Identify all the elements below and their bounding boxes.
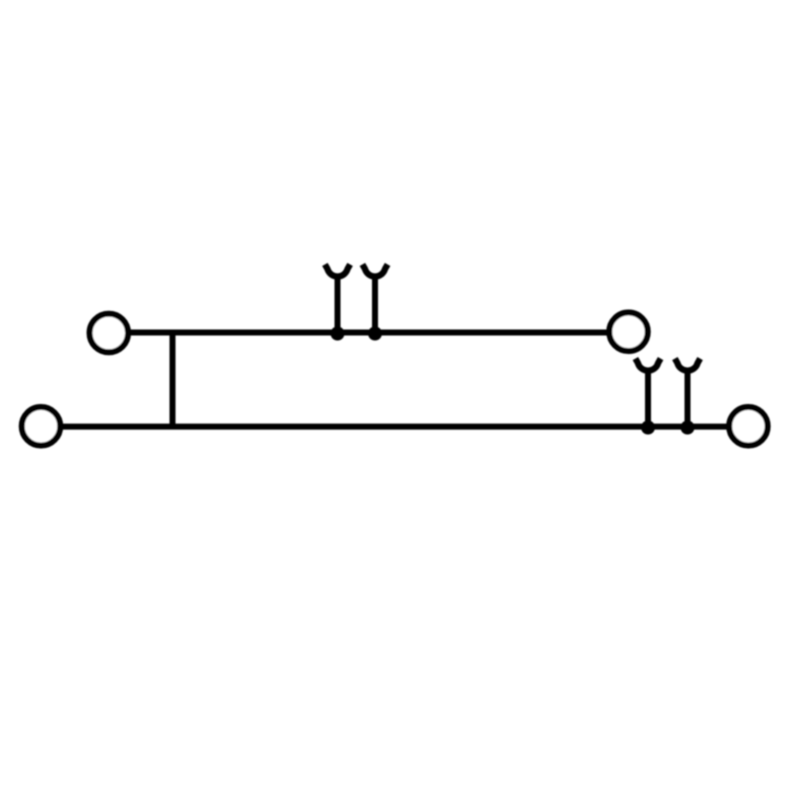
terminal circle upper-right — [609, 313, 648, 352]
test socket TS2 stem — [372, 276, 378, 333]
junction dot TS1 — [331, 327, 345, 341]
terminal circle lower-left — [22, 407, 61, 446]
test socket TS2 cup — [362, 264, 387, 276]
test socket TS4 cup — [675, 359, 700, 371]
wire lower rail — [41, 424, 748, 430]
test socket TS1 stem — [335, 276, 341, 333]
junction dot TS3 — [641, 421, 655, 435]
terminal circle upper-left — [90, 314, 129, 353]
test socket TS4 stem — [685, 370, 691, 426]
wire upper rail — [109, 330, 629, 336]
terminal circle lower-right — [729, 407, 768, 446]
junction dot TS4 — [681, 421, 695, 435]
test socket TS3 stem — [645, 370, 651, 426]
wire vertical link between rails — [170, 333, 176, 427]
junction dot TS2 — [368, 327, 382, 341]
test socket TS3 cup — [635, 359, 660, 371]
test socket TS1 cup — [325, 264, 350, 276]
